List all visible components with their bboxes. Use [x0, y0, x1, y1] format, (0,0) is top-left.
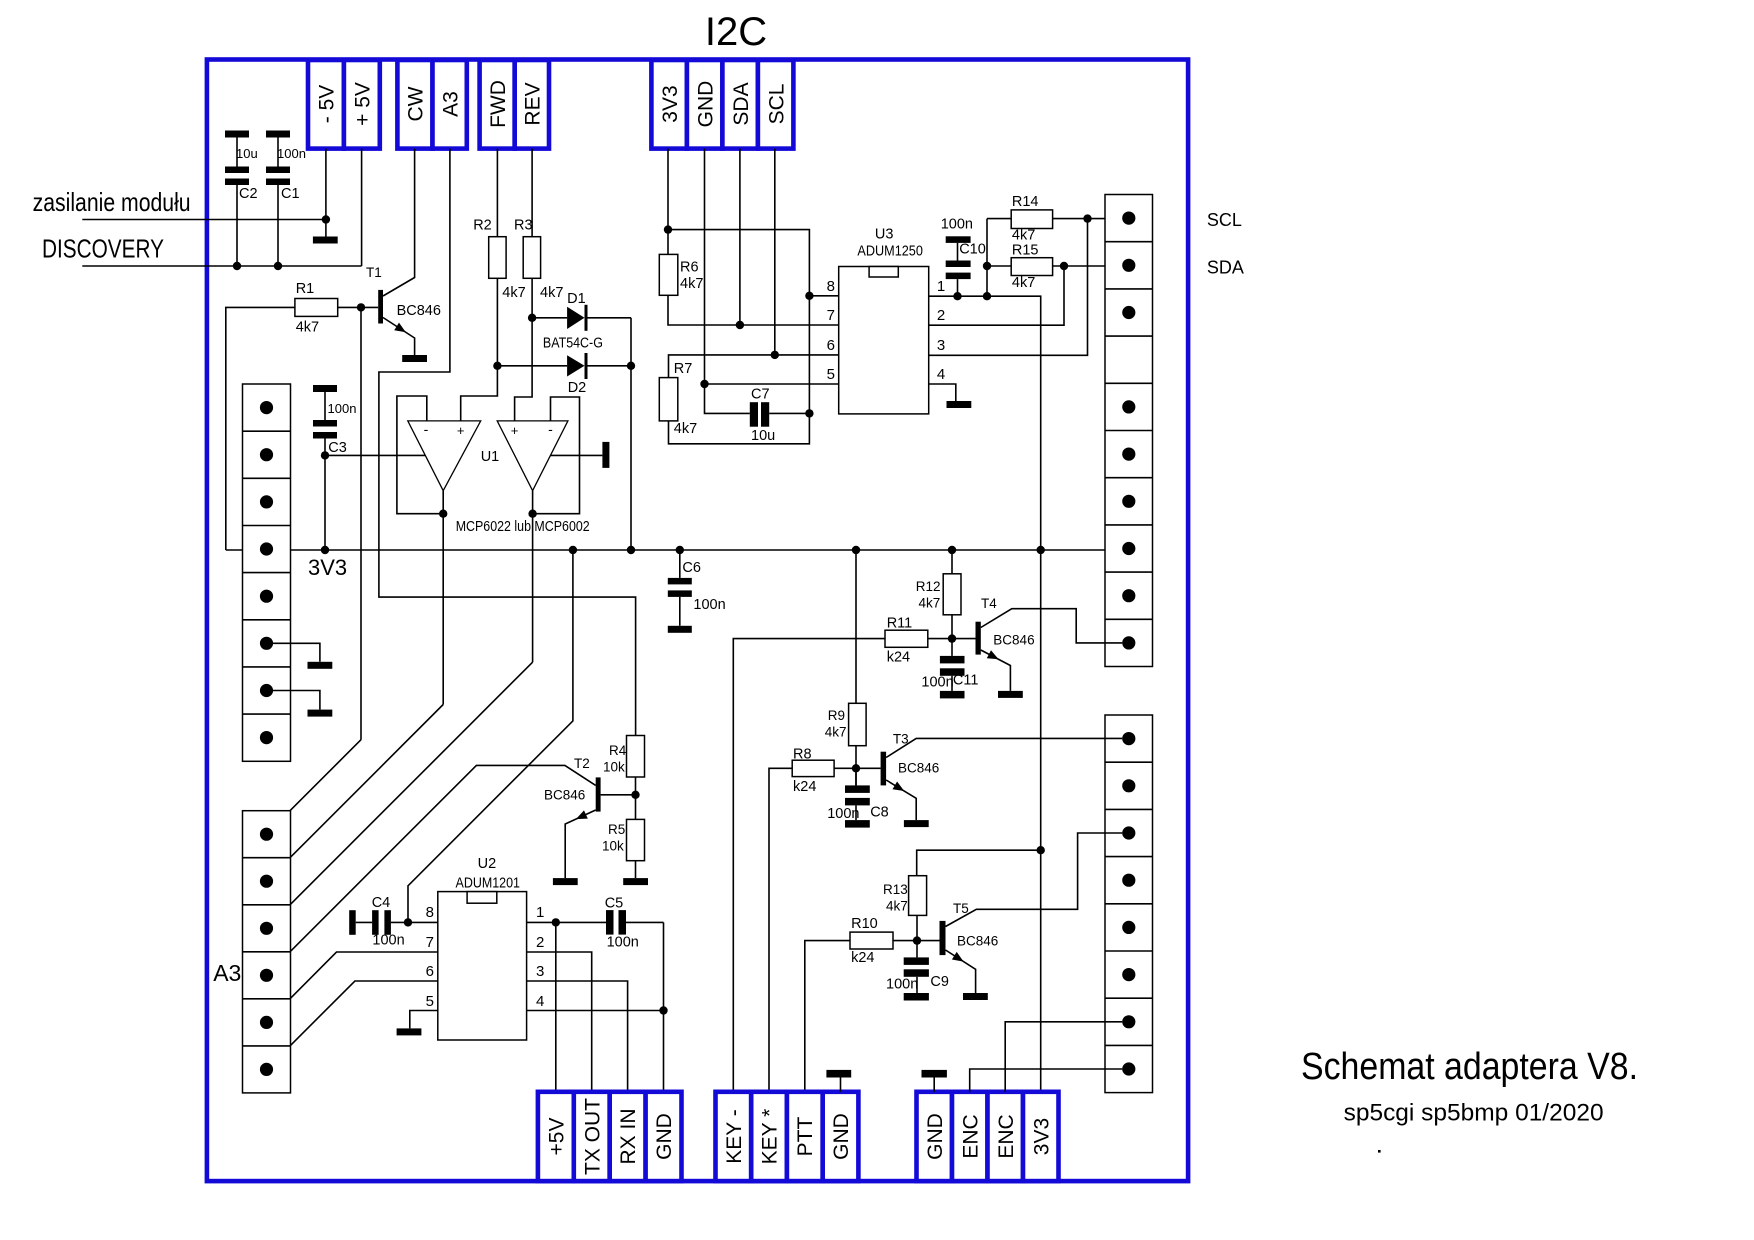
wire ENC1 to strip	[970, 1069, 1123, 1092]
svg-text:A3: A3	[439, 91, 462, 117]
svg-text:7: 7	[827, 307, 835, 324]
connector KEY-	[716, 1092, 752, 1181]
junction rail C6	[676, 546, 684, 554]
svg-text:+: +	[457, 423, 465, 438]
ground at left strip pin6	[308, 662, 333, 669]
svg-text:GND: GND	[924, 1113, 947, 1160]
junction T3 base node	[852, 764, 860, 772]
svg-text:C11: C11	[953, 673, 979, 689]
svg-text:3: 3	[536, 963, 544, 980]
svg-text:MCP6022 lub MCP6002: MCP6022 lub MCP6002	[456, 519, 590, 535]
resistor R12	[916, 550, 961, 656]
wire SDA top down	[739, 149, 741, 325]
wire U2 pin2 to TX OUT	[527, 952, 592, 1092]
svg-text:+5V: +5V	[545, 1118, 568, 1156]
op-amp U1 left half	[397, 396, 481, 514]
connector +5V bottom	[538, 1092, 574, 1181]
wire 3V3 node to U3 pin8 column	[668, 230, 809, 444]
svg-text:T3: T3	[893, 732, 909, 747]
svg-text:10u: 10u	[751, 428, 775, 444]
wire diagonal U2 pin7 to left pin 5	[267, 952, 438, 1022]
junction SDA/pin7	[736, 321, 744, 329]
junction D2 cathode	[627, 362, 635, 370]
junction rail U2vdd branch	[569, 546, 577, 554]
wire -5V down	[325, 149, 327, 237]
wire A3 net	[379, 149, 636, 736]
connector 3V3 top	[651, 60, 687, 149]
svg-text:BC846: BC846	[993, 633, 1034, 648]
junction R4/R5/T2	[631, 791, 639, 799]
wire left strip pin6 to ground	[267, 643, 320, 662]
wire 3V3 bottom column	[1040, 550, 1042, 1092]
svg-text:BC846: BC846	[397, 303, 441, 319]
transistor T2	[544, 756, 636, 878]
capacitor C11	[921, 656, 978, 699]
svg-text:100n: 100n	[277, 146, 306, 161]
svg-text:1: 1	[536, 904, 544, 921]
junction -5V/zasilanie	[322, 215, 330, 223]
resistor R1	[295, 281, 338, 336]
svg-text:R1: R1	[296, 281, 315, 297]
svg-text:6: 6	[426, 963, 434, 980]
connector strip right lower	[1105, 715, 1153, 1093]
ground at U2 pin5	[397, 1028, 422, 1035]
capacitor C10	[941, 217, 986, 297]
IC U2 ADUM1201	[438, 856, 527, 1040]
main schematic border frame	[207, 60, 1188, 1182]
svg-text:C2: C2	[239, 186, 258, 202]
junction C1/DISCOVERY	[274, 262, 282, 270]
wire U3 pin6 row to R7	[669, 355, 839, 378]
svg-text:ADUM1250: ADUM1250	[857, 244, 923, 260]
svg-text:3V3: 3V3	[659, 85, 682, 122]
svg-text:4k7: 4k7	[825, 725, 847, 740]
wire U3 pin2 row	[929, 266, 1064, 325]
svg-text:k24: k24	[887, 650, 910, 666]
svg-text:100n: 100n	[921, 675, 953, 691]
junction rail C3	[321, 546, 329, 554]
terminal bar above GND C	[922, 1070, 947, 1078]
svg-text:100n: 100n	[607, 935, 639, 951]
svg-text:7: 7	[426, 934, 434, 951]
junction R15/pin2 column	[1060, 262, 1068, 270]
svg-text:2: 2	[536, 934, 544, 951]
svg-text:1: 1	[937, 278, 945, 295]
ground at T1 emitter	[402, 355, 427, 362]
connector REV	[515, 60, 549, 149]
wire 3V3 rail	[226, 549, 1123, 551]
svg-text:ENC: ENC	[995, 1114, 1018, 1158]
capacitor C6	[668, 550, 726, 633]
svg-text:T4: T4	[981, 596, 997, 611]
svg-text:REV: REV	[522, 82, 545, 125]
capacitor C9	[886, 957, 949, 1000]
wire diagonal U2 pin6 to left pin 6	[267, 981, 438, 1069]
svg-text:R11: R11	[887, 616, 913, 632]
svg-text:TX OUT: TX OUT	[581, 1098, 604, 1175]
svg-text:4: 4	[937, 366, 945, 383]
resistor R3	[514, 218, 563, 302]
wire U2 pin1 row to C5	[527, 921, 606, 923]
capacitor C1	[266, 131, 306, 267]
connector +5V	[344, 60, 380, 149]
svg-text:BAT54C-G: BAT54C-G	[543, 336, 603, 352]
capacitor C3	[313, 385, 356, 550]
junction C7 right	[805, 409, 813, 417]
ground at left strip pin7	[308, 710, 333, 717]
svg-text:100n: 100n	[372, 933, 404, 949]
svg-text:3V3: 3V3	[308, 555, 347, 580]
resistor R8	[769, 747, 881, 1092]
wire ENC2 to strip	[1005, 1022, 1122, 1092]
transistor T1	[366, 149, 441, 355]
svg-text:10k: 10k	[602, 839, 624, 854]
terminal bar right of U1	[602, 442, 609, 468]
svg-text:D1: D1	[567, 291, 586, 307]
svg-text:BC846: BC846	[544, 788, 585, 803]
capacitor C8	[827, 768, 889, 827]
svg-text:RX IN: RX IN	[617, 1108, 640, 1164]
junction GND/pin5	[700, 380, 708, 388]
svg-text:T2: T2	[574, 756, 590, 771]
svg-text:+: +	[511, 423, 519, 438]
capacitor C7	[705, 384, 810, 444]
svg-text:BC846: BC846	[898, 761, 939, 776]
resistor R6	[659, 254, 703, 295]
capacitor C4	[349, 895, 438, 949]
svg-text:-: -	[548, 421, 553, 437]
svg-text:- 5V: - 5V	[316, 85, 339, 124]
connector GND bottom B	[823, 1092, 859, 1181]
svg-text:R10: R10	[851, 916, 878, 932]
wire C3 to opamp inverting input	[325, 454, 425, 456]
junction rail R9	[852, 546, 860, 554]
wire U1 right output down	[532, 514, 534, 663]
IC U3 ADUM1250	[839, 227, 929, 414]
wire GND B stub	[840, 1078, 842, 1092]
junction U1 left output	[439, 510, 447, 518]
junction U1 right output	[528, 510, 536, 518]
svg-text:I2C: I2C	[705, 10, 767, 54]
junction R3/D1	[528, 314, 536, 322]
svg-text:ENC: ENC	[959, 1114, 982, 1158]
wire R2 down to opamp plus	[461, 278, 498, 421]
junction T4 base node	[948, 634, 956, 642]
diode D1	[532, 291, 631, 331]
svg-text:DISCOVERY: DISCOVERY	[42, 234, 164, 264]
connector strip left upper	[243, 384, 291, 761]
junction T5 base node	[913, 936, 921, 944]
svg-text:C4: C4	[372, 895, 391, 911]
svg-text:100n: 100n	[328, 401, 357, 416]
diode D2	[497, 353, 631, 396]
svg-text:T1: T1	[366, 265, 382, 280]
wire SCL top down	[774, 149, 776, 355]
svg-text:4k7: 4k7	[502, 285, 525, 301]
svg-text:4k7: 4k7	[296, 320, 319, 336]
connector -5V	[308, 60, 344, 149]
junction 3V3/pin8 branch	[664, 225, 672, 233]
transistor T3	[881, 732, 1123, 821]
svg-text:KEY -: KEY -	[723, 1109, 746, 1163]
junction C4/U2 pin8	[404, 918, 412, 926]
wire CW/T1 junction down	[360, 307, 362, 739]
junction SCL/pin6	[771, 351, 779, 359]
wire zasilanie line	[82, 219, 326, 221]
junction pin8 column	[805, 292, 813, 300]
svg-text:SCL: SCL	[765, 84, 788, 125]
connector strip right upper	[1105, 195, 1153, 667]
resistor R11	[733, 616, 975, 1092]
svg-text:5: 5	[426, 993, 434, 1010]
wire diagonal T1 node to left pin 1	[267, 740, 362, 835]
junction pullup/R15	[983, 262, 991, 270]
svg-text:R8: R8	[793, 747, 812, 763]
svg-text:4k7: 4k7	[680, 276, 703, 292]
wire GND top down	[704, 149, 706, 384]
wire R13 branch	[917, 850, 1041, 876]
op-amp U1 right half	[497, 397, 579, 514]
connector FWD	[480, 60, 515, 149]
svg-text:C3: C3	[328, 440, 347, 456]
resistor R7	[659, 361, 697, 437]
wire U2 pin4 row	[527, 1010, 664, 1012]
svg-text:R15: R15	[1012, 243, 1039, 259]
wire diagonal U1 left out to left pin 2	[267, 705, 444, 882]
wire U3 pin8 row	[809, 295, 838, 297]
svg-text:R6: R6	[680, 260, 699, 276]
svg-text:3V3: 3V3	[1030, 1118, 1053, 1155]
wire U3 pin4 to ground	[929, 384, 956, 401]
junction C3 node	[321, 451, 329, 459]
svg-text:A3: A3	[213, 960, 241, 986]
connector PTT	[787, 1092, 823, 1181]
wire left strip pin7 to ground	[267, 691, 320, 710]
svg-text:C5: C5	[605, 896, 624, 912]
capacitor C5	[605, 896, 664, 951]
svg-text:100n: 100n	[827, 806, 859, 822]
svg-text:U1: U1	[481, 449, 500, 465]
svg-text:R12: R12	[916, 579, 941, 594]
svg-text:-: -	[424, 421, 429, 437]
connector GND bottom C	[917, 1092, 953, 1181]
connector ENC 2	[988, 1092, 1024, 1181]
svg-text:R4: R4	[609, 743, 627, 758]
svg-text:k24: k24	[851, 950, 874, 966]
junction 3V3/R13 branch	[1037, 846, 1045, 854]
connector A3	[433, 60, 467, 149]
svg-text:100n: 100n	[693, 597, 725, 613]
svg-text:3: 3	[937, 337, 945, 354]
svg-text:SDA: SDA	[1207, 258, 1244, 278]
connector KEY*	[751, 1092, 787, 1181]
svg-text:R14: R14	[1012, 194, 1039, 210]
svg-text:ADUM1201: ADUM1201	[456, 876, 521, 892]
svg-text:R2: R2	[473, 218, 492, 234]
connector CW	[397, 60, 432, 149]
wire 3V3 branch down to U2 vdd	[408, 550, 573, 922]
wire FWD to R2	[496, 149, 498, 237]
resistor R9	[825, 550, 866, 785]
svg-text:zasilanie modułu: zasilanie modułu	[33, 187, 191, 217]
svg-text:R7: R7	[674, 361, 693, 377]
junction rail R12	[948, 546, 956, 554]
connector SCL top	[758, 60, 794, 149]
svg-text:T5: T5	[953, 901, 969, 916]
svg-text:U2: U2	[478, 856, 497, 872]
wire +5V bottom up	[555, 922, 557, 1091]
wire diagonal U1 right out to left pin 3	[267, 662, 533, 928]
resistor R13	[883, 876, 927, 958]
ground at T2 emitter	[553, 878, 578, 885]
wire R6 bottom to U3 pin7	[668, 295, 839, 325]
wire U3 pin3 row	[929, 219, 1088, 356]
svg-text:2: 2	[937, 307, 945, 324]
svg-text:R5: R5	[608, 822, 625, 837]
junction R2/D2	[493, 362, 501, 370]
svg-text:GND: GND	[653, 1113, 676, 1160]
junction rail 3V3 bottom	[1037, 546, 1045, 554]
ground at R5	[623, 878, 648, 885]
stray period mark	[1378, 1150, 1381, 1153]
wire U2 pin3 to RX IN	[527, 981, 628, 1092]
wire R5 bottom to ground	[635, 861, 637, 878]
junction pin4/GND column	[659, 1006, 667, 1014]
wire U1 left output down	[442, 514, 444, 705]
connector GND top	[687, 60, 723, 149]
connector GND bottom A	[646, 1092, 682, 1181]
svg-text:BC846: BC846	[957, 934, 998, 949]
wire +5V down	[361, 149, 363, 266]
junction rail diode clamp	[627, 546, 635, 554]
svg-text:100n: 100n	[941, 217, 973, 233]
wire C5 right down to GND connector	[663, 922, 665, 1091]
wire diagonal T2 base to left pin 4	[267, 765, 596, 975]
ground at T3 emitter	[904, 820, 929, 827]
svg-text:R3: R3	[514, 218, 533, 234]
svg-text:SCL: SCL	[1207, 210, 1242, 230]
svg-text:4k7: 4k7	[1012, 228, 1035, 244]
svg-text:SDA: SDA	[730, 82, 753, 125]
svg-text:R13: R13	[883, 882, 908, 897]
svg-text:8: 8	[426, 904, 434, 921]
junction pin1/C10	[953, 292, 961, 300]
ground at T5 emitter	[963, 993, 988, 1000]
svg-text:C9: C9	[930, 974, 949, 990]
svg-text:C8: C8	[870, 805, 889, 821]
connector SDA top	[722, 60, 758, 149]
svg-text:+ 5V: + 5V	[351, 82, 374, 126]
svg-text:KEY *: KEY *	[759, 1109, 782, 1165]
svg-text:C10: C10	[959, 242, 986, 258]
wire 3V3 top down	[667, 149, 669, 255]
transistor T5	[940, 833, 1123, 993]
svg-text:Schemat adaptera V8.: Schemat adaptera V8.	[1301, 1046, 1638, 1088]
connector RX IN	[610, 1092, 646, 1181]
wire D1/D2 cathodes to 3V3 rail	[630, 318, 632, 550]
resistor R2	[473, 218, 525, 302]
svg-text:C1: C1	[281, 186, 300, 202]
svg-text:8: 8	[827, 278, 835, 295]
svg-text:4k7: 4k7	[919, 596, 941, 611]
svg-text:GND: GND	[694, 81, 717, 128]
svg-text:U3: U3	[875, 227, 894, 243]
connector 3V3 bottom	[1023, 1092, 1059, 1181]
svg-text:GND: GND	[830, 1113, 853, 1160]
wire pullup column	[986, 219, 988, 297]
svg-text:sp5cgi sp5bmp 01/2020: sp5cgi sp5bmp 01/2020	[1344, 1100, 1604, 1127]
wire R1 left to 3V3 rail	[226, 307, 295, 550]
svg-text:4k7: 4k7	[1012, 275, 1035, 291]
wire U3 pin5 row	[705, 383, 839, 385]
resistor R14	[987, 194, 1122, 244]
svg-text:4: 4	[536, 993, 544, 1010]
svg-text:4k7: 4k7	[674, 421, 697, 437]
svg-text:CW: CW	[405, 86, 428, 121]
svg-text:C7: C7	[751, 387, 770, 403]
svg-text:4k7: 4k7	[540, 285, 563, 301]
terminal bar above GND B	[826, 1070, 851, 1078]
svg-text:5: 5	[827, 366, 835, 383]
wire DISCOVERY line	[82, 265, 361, 267]
svg-text:6: 6	[827, 337, 835, 354]
junction T1 base node	[357, 303, 365, 311]
junction R14/pin3 column	[1083, 214, 1091, 222]
junction C2/DISCOVERY	[233, 262, 241, 270]
resistor R4	[603, 736, 645, 778]
capacitor C2	[225, 131, 258, 267]
svg-text:100n: 100n	[886, 977, 918, 993]
wire U1 right output stub to terminal	[550, 454, 602, 456]
resistor R15	[987, 243, 1122, 292]
connector ENC 1	[952, 1092, 988, 1181]
transistor T4	[976, 596, 1123, 691]
svg-text:4k7: 4k7	[886, 899, 908, 914]
connector TX OUT	[574, 1092, 610, 1181]
svg-text:C6: C6	[682, 560, 701, 576]
svg-text:D2: D2	[568, 380, 587, 396]
resistor R5	[602, 819, 645, 860]
wire R3 down to opamp plus right	[515, 278, 533, 421]
junction pin1/+5V	[552, 918, 560, 926]
connector strip left lower	[243, 811, 291, 1093]
wire R4 bottom to T2 collector node	[635, 777, 637, 819]
svg-text:10k: 10k	[603, 760, 625, 775]
svg-text:R9: R9	[828, 708, 845, 723]
junction pin1/pullups	[983, 292, 991, 300]
svg-text:k24: k24	[793, 779, 816, 795]
svg-text:FWD: FWD	[487, 80, 510, 128]
svg-text:PTT: PTT	[794, 1117, 817, 1157]
wire GND C stub	[933, 1078, 935, 1092]
resistor R10	[805, 916, 940, 1092]
ground at T4 emitter	[998, 691, 1023, 698]
wire REV to R3	[531, 149, 533, 237]
svg-text:10u: 10u	[236, 146, 258, 161]
wire U3 pin1 row to rail	[929, 296, 1041, 550]
wire R1 right to T1 base	[338, 306, 379, 308]
ground at U3 pin4	[947, 401, 972, 408]
ground bar below -5V node	[313, 237, 338, 244]
wire U2 pin5 to ground	[410, 1011, 438, 1029]
